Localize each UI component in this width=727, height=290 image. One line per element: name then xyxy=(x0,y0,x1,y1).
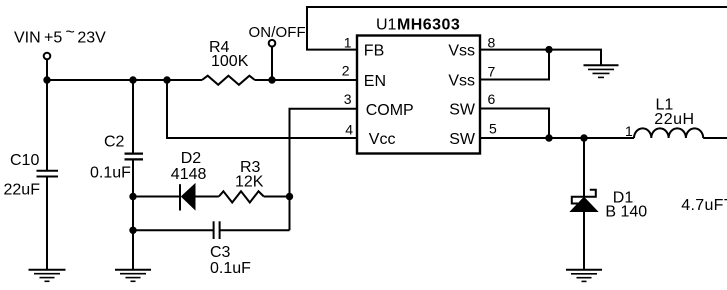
wire pin 8 Vss to ground xyxy=(480,50,601,66)
svg-text:Vss: Vss xyxy=(448,73,475,90)
wire pin 6 SW down xyxy=(480,109,549,139)
svg-text:22uF: 22uF xyxy=(4,182,41,199)
capacitor C10 xyxy=(37,171,59,177)
svg-text:MH6303: MH6303 xyxy=(397,16,460,33)
junction D1 branch xyxy=(580,134,587,141)
wire R4 to pin 2 EN xyxy=(255,79,357,81)
junction COMP net xyxy=(286,193,293,200)
wire COMP vertical xyxy=(290,109,358,231)
wire C3 right lead xyxy=(220,229,290,231)
wire L1 to output edge xyxy=(703,137,727,139)
svg-text:B 140: B 140 xyxy=(605,204,647,221)
junction Vss pins xyxy=(545,46,552,53)
svg-text:D2: D2 xyxy=(181,150,202,167)
junction D2 net xyxy=(129,193,136,200)
svg-text:SW: SW xyxy=(449,131,476,148)
wire C10 bottom lead xyxy=(46,177,48,271)
svg-text:4148: 4148 xyxy=(171,166,207,183)
wire C2 top lead xyxy=(132,80,134,153)
junction Vcc branch xyxy=(163,76,170,83)
svg-text:0.1uF: 0.1uF xyxy=(210,260,251,277)
terminal ON/OFF xyxy=(269,40,276,47)
svg-text:8: 8 xyxy=(488,35,496,51)
resistor R3 xyxy=(219,191,264,202)
ground Vss xyxy=(584,65,619,77)
wire R3 to COMP node xyxy=(264,196,290,198)
wire C10 top lead xyxy=(46,80,48,171)
ground C10 xyxy=(29,270,66,282)
svg-text:C10: C10 xyxy=(10,152,39,169)
wire D1 cathode lead xyxy=(583,138,585,197)
capacitor C2 xyxy=(125,154,144,160)
svg-text:0.1uF: 0.1uF xyxy=(90,164,131,181)
wire C2 bottom lead xyxy=(132,159,134,270)
junction VIN rail xyxy=(43,76,50,83)
wire pin 5 SW output xyxy=(480,137,634,139)
svg-text:EN: EN xyxy=(364,73,386,90)
wire pin 7 Vss up xyxy=(480,50,549,80)
wire C3 left lead xyxy=(133,229,213,231)
wire ON/OFF to rail xyxy=(271,47,273,81)
wire VIN terminal to input rail xyxy=(46,59,48,80)
svg-text:22uH: 22uH xyxy=(654,111,694,128)
ground C2 xyxy=(115,270,151,282)
svg-text:4: 4 xyxy=(345,121,353,137)
junction SW pins xyxy=(545,134,552,141)
wire D1 anode lead xyxy=(583,212,585,271)
svg-text:12K: 12K xyxy=(235,174,264,191)
svg-text:Vss: Vss xyxy=(448,43,475,60)
svg-text:7: 7 xyxy=(488,63,496,79)
svg-text:1: 1 xyxy=(344,35,352,51)
wire Vcc branch xyxy=(167,80,357,138)
svg-text:SW: SW xyxy=(449,102,476,119)
svg-text:1: 1 xyxy=(625,123,633,139)
svg-text:ON/OFF: ON/OFF xyxy=(249,24,306,41)
svg-text:C3: C3 xyxy=(210,244,231,261)
capacitor C3 xyxy=(214,221,220,239)
diode D2 xyxy=(180,184,195,211)
svg-text:6: 6 xyxy=(488,91,496,107)
svg-text:100K: 100K xyxy=(211,53,249,70)
junction ON/OFF tap xyxy=(268,76,275,83)
inductor L1 xyxy=(634,128,703,138)
wire D2 anode lead xyxy=(133,196,180,198)
wire FB feedback top xyxy=(307,7,727,50)
junction C2 branch xyxy=(129,76,136,83)
svg-text:2: 2 xyxy=(342,62,350,78)
svg-text:5: 5 xyxy=(489,121,497,137)
resistor R4 xyxy=(202,76,255,85)
svg-text:Vcc: Vcc xyxy=(369,131,396,148)
wire input rail left segment xyxy=(47,79,202,81)
svg-text:FB: FB xyxy=(364,43,384,60)
op-amp U1 IC body xyxy=(357,36,480,154)
svg-text:COMP: COMP xyxy=(366,102,414,119)
svg-text:C2: C2 xyxy=(104,133,125,150)
svg-text:4.7uF: 4.7uF xyxy=(681,197,723,214)
terminal VIN xyxy=(44,53,51,60)
svg-text:U1: U1 xyxy=(376,16,397,33)
diode D1 schottky xyxy=(571,190,598,212)
ground D1 xyxy=(566,270,602,282)
svg-text:3: 3 xyxy=(344,91,352,107)
wire D2 to R3 xyxy=(195,196,219,198)
junction C3 net xyxy=(129,227,136,234)
